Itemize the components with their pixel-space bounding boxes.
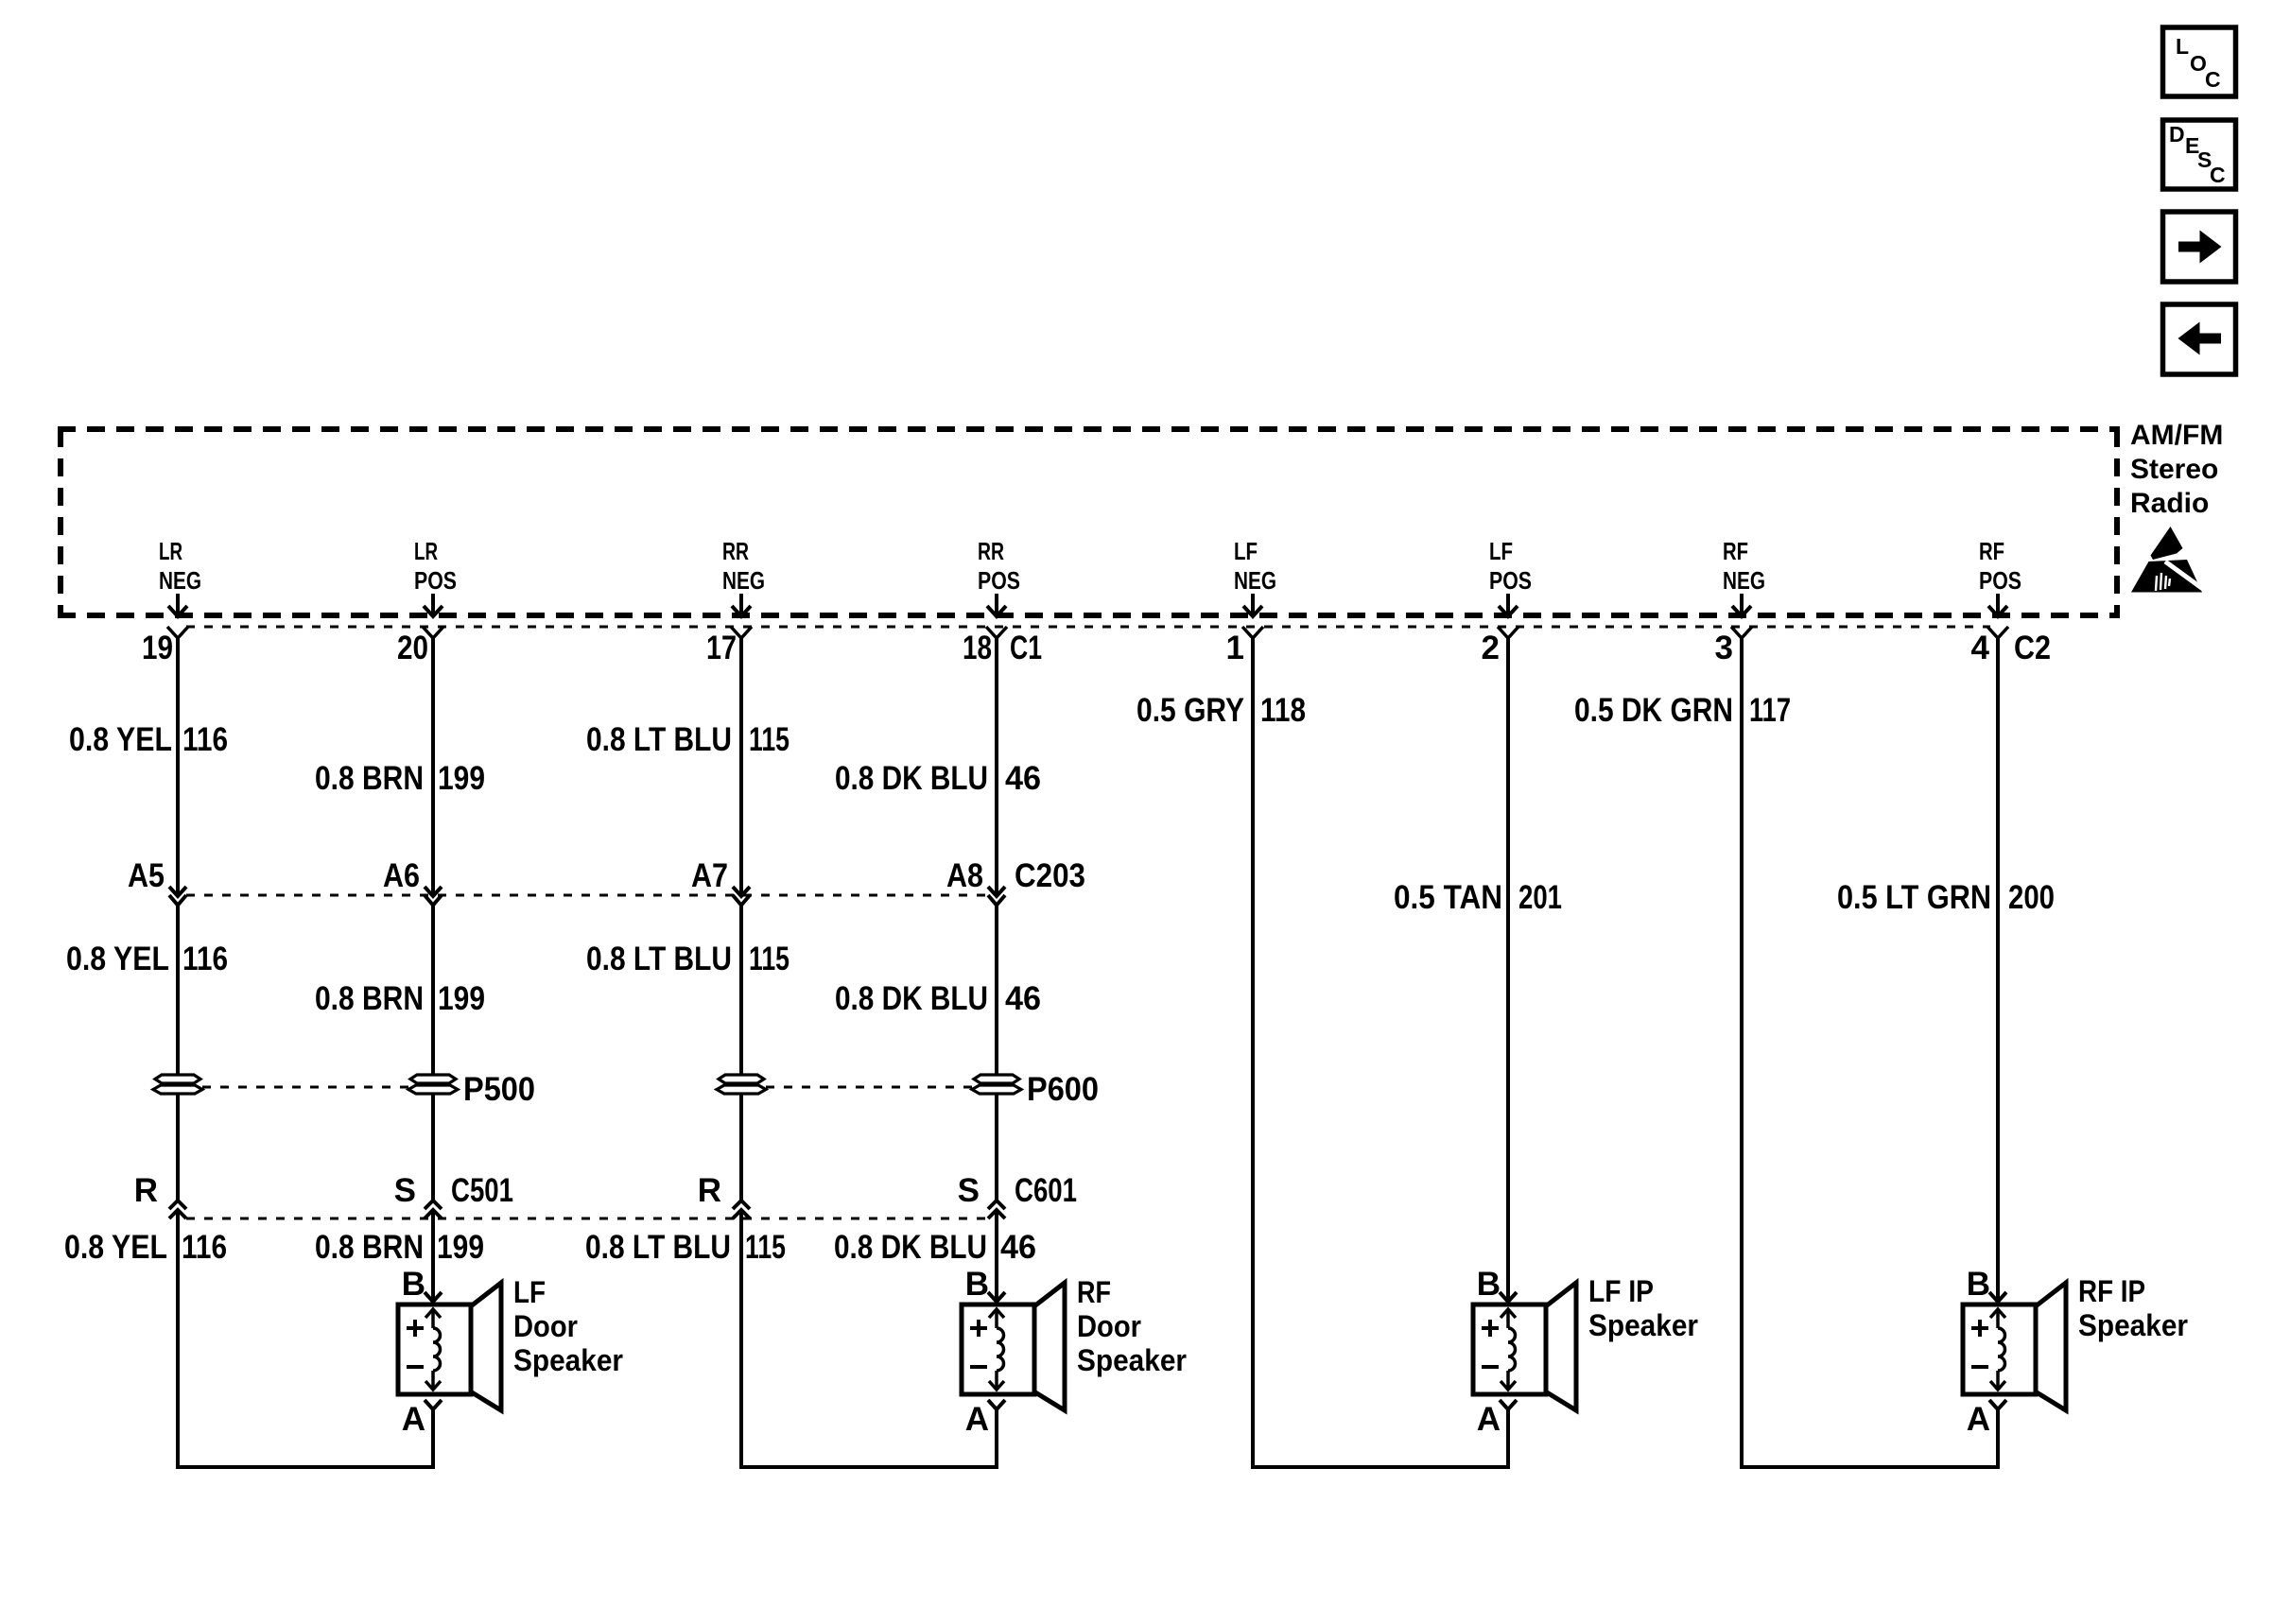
svg-text:Stereo: Stereo (2130, 454, 2218, 485)
radio output arrow at x1842 (1740, 594, 1744, 614)
connector C501/C601 terminal R at x784 (733, 1201, 750, 1209)
connector C501/C601 terminal S at x458 (425, 1201, 442, 1209)
svg-text:Radio: Radio (2130, 488, 2209, 519)
svg-text:201: 201 (1518, 879, 1562, 916)
connector chevron at x1054 (986, 627, 1007, 638)
svg-text:A5: A5 (128, 857, 165, 894)
svg-text:L: L (2176, 34, 2189, 59)
grommet P500 at x188 (155, 1075, 200, 1083)
speaker RF IP Speaker (1989, 1292, 2006, 1302)
svg-text:A6: A6 (383, 857, 420, 894)
svg-text:B: B (402, 1266, 425, 1303)
grommet P500 at x458 (410, 1075, 456, 1083)
svg-text:R: R (698, 1172, 721, 1209)
svg-text:2: 2 (1482, 630, 1500, 666)
svg-text:C601: C601 (1015, 1172, 1077, 1209)
radio output arrow at x1325 (1251, 594, 1255, 614)
connector C501/C601 terminal S at x1054 (988, 1201, 1005, 1209)
connector chevron at x1595 (1498, 627, 1518, 638)
svg-text:B: B (1477, 1266, 1501, 1303)
svg-text:Door: Door (513, 1309, 578, 1343)
svg-text:Speaker: Speaker (1588, 1308, 1698, 1342)
wire segment x458 radio to C203 (431, 637, 435, 896)
svg-text:C501: C501 (451, 1172, 513, 1209)
connector chevron at x188 (167, 627, 188, 638)
wire segment x1325 radio to corner (1253, 637, 1508, 1467)
wire segment x188 radio to C203 (176, 637, 180, 896)
svg-text:0.8 LT BLU: 0.8 LT BLU (586, 721, 732, 758)
svg-text:19: 19 (142, 630, 173, 666)
speaker LF Door Speaker (425, 1292, 442, 1302)
svg-text:118: 118 (1260, 692, 1306, 729)
svg-text:0.8 LT BLU: 0.8 LT BLU (585, 1229, 731, 1266)
connector C501 dashed line (186, 1218, 988, 1220)
wire segment x784 radio to C203 (739, 637, 743, 896)
connector chevron at x458 (423, 627, 443, 638)
connector C1-C2 dashed line (186, 626, 1990, 629)
svg-text:0.8 LT BLU: 0.8 LT BLU (586, 941, 732, 977)
svg-text:46: 46 (1000, 1229, 1036, 1266)
svg-text:115: 115 (749, 941, 789, 977)
svg-text:0.8 YEL: 0.8 YEL (66, 941, 169, 977)
svg-text:18: 18 (963, 630, 992, 666)
svg-text:LR: LR (414, 537, 438, 565)
svg-text:Speaker: Speaker (513, 1343, 623, 1377)
svg-text:LF: LF (1234, 537, 1258, 565)
wire segment x458 C203 to C501 (431, 905, 435, 1201)
svg-text:S: S (394, 1172, 416, 1209)
svg-text:P600: P600 (1027, 1071, 1099, 1108)
svg-text:1: 1 (1226, 630, 1244, 666)
wire segment x188 C501 to corner (178, 1210, 433, 1467)
LOC hyperlink box (2163, 27, 2236, 96)
svg-text:P500: P500 (463, 1071, 535, 1108)
svg-text:0.5 DK GRN: 0.5 DK GRN (1574, 692, 1733, 729)
ESD sensitive symbol (2131, 527, 2207, 593)
svg-text:RR: RR (722, 537, 749, 565)
svg-text:116: 116 (182, 941, 228, 977)
radio output arrow at x1595 (1506, 594, 1510, 614)
svg-text:C203: C203 (1015, 857, 1085, 894)
wire segment x784 C203 to C501 (739, 905, 743, 1201)
wire segment x1842 radio to corner (1742, 637, 1998, 1467)
svg-text:C2: C2 (2014, 630, 2051, 666)
svg-text:C: C (2210, 163, 2226, 187)
svg-text:Speaker: Speaker (1077, 1343, 1187, 1377)
svg-text:0.8 BRN: 0.8 BRN (315, 760, 424, 797)
svg-text:0.8 DK BLU: 0.8 DK BLU (835, 760, 988, 797)
grommet P600 at x784 (719, 1075, 764, 1083)
svg-text:C: C (2205, 67, 2221, 92)
back arrow box (2163, 304, 2236, 374)
svg-text:B: B (965, 1266, 989, 1303)
speaker RF Door Speaker (988, 1292, 1005, 1302)
svg-text:S: S (958, 1172, 980, 1209)
svg-text:LR: LR (159, 537, 182, 565)
svg-text:A7: A7 (691, 857, 728, 894)
svg-text:A: A (965, 1401, 989, 1438)
svg-text:POS: POS (414, 566, 457, 595)
svg-text:NEG: NEG (722, 566, 765, 595)
svg-text:A: A (402, 1401, 425, 1438)
radio output arrow at x2113 (1996, 594, 2000, 614)
wire segment x1054 C203 to C501 (995, 905, 998, 1201)
forward arrow box (2163, 212, 2236, 282)
svg-text:Speaker: Speaker (2078, 1308, 2188, 1342)
connector C501/C601 terminal R at x188 (169, 1201, 186, 1209)
svg-text:4: 4 (1971, 630, 1990, 666)
svg-text:C1: C1 (1010, 630, 1042, 666)
svg-text:RR: RR (978, 537, 1004, 565)
connector chevron at x1842 (1731, 627, 1752, 638)
svg-text:46: 46 (1005, 760, 1041, 797)
wire segment x2113 radio to RF IP speaker B (1996, 637, 2000, 1302)
grommet P500 dashed line (202, 1086, 408, 1089)
radio output arrow at x784 (739, 594, 743, 614)
wire segment x1595 radio to LF IP speaker B (1506, 637, 1510, 1302)
svg-text:0.8 DK BLU: 0.8 DK BLU (835, 980, 988, 1017)
svg-text:46: 46 (1005, 980, 1041, 1017)
wire segment x458 C501 to LF door speaker B (431, 1210, 435, 1302)
svg-text:POS: POS (1489, 566, 1532, 595)
svg-text:RF: RF (1077, 1275, 1111, 1309)
svg-text:0.8 BRN: 0.8 BRN (315, 980, 424, 1017)
svg-text:0.8 YEL: 0.8 YEL (69, 721, 172, 758)
connector C203 terminal A7 (733, 887, 750, 896)
svg-text:A8: A8 (946, 857, 983, 894)
connector C203 dashed line (186, 894, 988, 897)
svg-text:115: 115 (745, 1229, 786, 1266)
svg-text:Door: Door (1077, 1309, 1141, 1343)
AM/FM Stereo Radio dashed box (58, 426, 2120, 432)
connector C203 terminal A6 (425, 887, 442, 896)
svg-text:LF IP: LF IP (1588, 1274, 1654, 1308)
connector chevron at x784 (731, 627, 752, 638)
svg-text:B: B (1967, 1266, 1990, 1303)
DESC hyperlink box (2163, 120, 2236, 189)
svg-text:116: 116 (182, 1229, 227, 1266)
svg-text:R: R (134, 1172, 158, 1209)
svg-text:199: 199 (438, 980, 485, 1017)
wire segment x1054 radio to C203 (995, 637, 998, 896)
connector C203 terminal A8 (988, 887, 1005, 896)
speaker LF IP Speaker (1500, 1292, 1517, 1302)
svg-text:0.5 GRY: 0.5 GRY (1136, 692, 1244, 729)
svg-text:RF: RF (1723, 537, 1748, 565)
svg-text:116: 116 (182, 721, 228, 758)
svg-text:NEG: NEG (1234, 566, 1276, 595)
radio output arrow at x458 (431, 594, 435, 614)
svg-text:D: D (2169, 122, 2185, 147)
wire segment x1054 C601 to RF door speaker B (995, 1210, 998, 1302)
svg-text:A: A (1477, 1401, 1501, 1438)
svg-text:20: 20 (397, 630, 428, 666)
svg-text:0.8 DK BLU: 0.8 DK BLU (834, 1229, 987, 1266)
svg-text:RF IP: RF IP (2078, 1274, 2145, 1308)
svg-text:17: 17 (706, 630, 737, 666)
svg-text:117: 117 (1749, 692, 1791, 729)
svg-text:3: 3 (1715, 630, 1733, 666)
svg-text:NEG: NEG (159, 566, 201, 595)
svg-text:0.8 YEL: 0.8 YEL (64, 1229, 167, 1266)
svg-text:LF: LF (1489, 537, 1513, 565)
svg-text:RF: RF (1979, 537, 2004, 565)
svg-text:LF: LF (513, 1275, 546, 1309)
wire segment x188 C203 to C501 (176, 905, 180, 1201)
svg-text:199: 199 (437, 1229, 484, 1266)
svg-text:0.5 TAN: 0.5 TAN (1394, 879, 1502, 916)
grommet P600 at x1054 (974, 1075, 1019, 1083)
svg-text:0.5 LT GRN: 0.5 LT GRN (1837, 879, 1991, 916)
connector C203 terminal A5 (169, 887, 186, 896)
grommet P600 dashed line (766, 1086, 972, 1089)
svg-text:0.8 BRN: 0.8 BRN (315, 1229, 424, 1266)
radio output arrow at x1054 (995, 594, 998, 614)
svg-text:AM/FM: AM/FM (2130, 420, 2223, 451)
wire segment x784 C601 to corner (741, 1210, 997, 1467)
radio output arrow at x188 (176, 594, 180, 614)
svg-text:NEG: NEG (1723, 566, 1765, 595)
connector chevron at x1325 (1242, 627, 1263, 638)
svg-text:POS: POS (1979, 566, 2021, 595)
svg-text:115: 115 (749, 721, 789, 758)
svg-text:200: 200 (2008, 879, 2055, 916)
svg-text:POS: POS (978, 566, 1020, 595)
svg-text:199: 199 (438, 760, 485, 797)
connector chevron at x2113 (1987, 627, 2008, 638)
svg-text:A: A (1967, 1401, 1990, 1438)
